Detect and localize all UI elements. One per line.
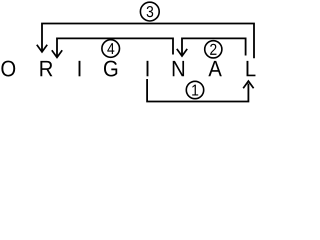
bracket 1 wire (bottom bracket) [147, 79, 248, 102]
digit 4 [107, 43, 114, 54]
letter N [173, 61, 184, 76]
bracket 3 wire (top outer bracket) [42, 24, 254, 59]
letter O [1, 61, 15, 77]
letter G [104, 61, 117, 77]
digit 1 [192, 85, 198, 96]
bracket 4 wire (upper-left inner bracket) [57, 38, 173, 56]
digit 2 [210, 44, 216, 55]
letter I (second) [147, 61, 149, 76]
circled 3 marker circle [140, 2, 159, 21]
letter A [208, 61, 221, 76]
arrowhead down at left end of bracket 3 [37, 45, 47, 52]
bracket 2 wire (upper-right inner bracket) [182, 38, 246, 55]
letter R [40, 61, 52, 76]
circled 1 marker circle [186, 81, 203, 98]
letter I [79, 61, 81, 76]
digit 3 [147, 6, 154, 17]
arrowhead down at left end of bracket 4 [52, 50, 62, 57]
circled 2 marker circle [205, 41, 222, 58]
letter L [247, 61, 256, 76]
circled 4 marker circle [102, 40, 120, 58]
arrowhead down at left end of bracket 2 [177, 49, 187, 56]
arrowhead up at right end of bracket 1 [243, 81, 253, 88]
